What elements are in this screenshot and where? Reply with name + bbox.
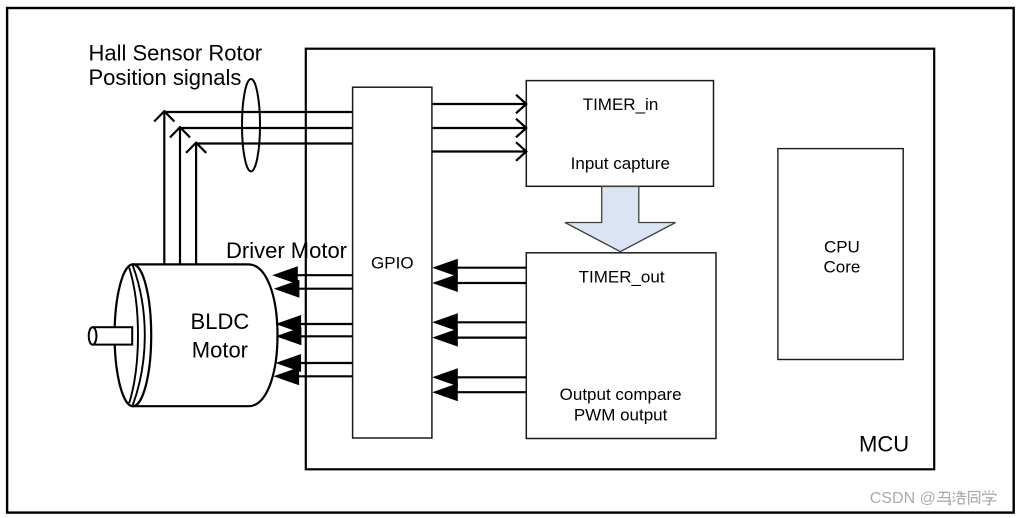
- wire drive 5 GPIO to motor: [276, 354, 353, 372]
- svg-text:Motor: Motor: [192, 338, 248, 363]
- wire hall signal 2 motor to GPIO: [170, 127, 353, 264]
- block GPIO: [353, 87, 432, 438]
- wire hall 3 GPIO to TIMER_in: [432, 142, 526, 161]
- wire pwm 6 TIMER_out to GPIO: [432, 383, 526, 401]
- svg-text:Position signals: Position signals: [89, 65, 242, 90]
- wire pwm 3 TIMER_out to GPIO: [432, 313, 526, 331]
- wire drive 6 GPIO to motor: [274, 367, 353, 385]
- wire drive 1 GPIO to motor: [272, 266, 352, 284]
- motor rim arc 2: [133, 266, 145, 405]
- wire pwm 2 TIMER_out to GPIO: [432, 274, 526, 292]
- wire drive 2 GPIO to motor: [274, 280, 353, 298]
- wire drive 4 GPIO to motor: [276, 327, 353, 345]
- wire pwm 5 TIMER_out to GPIO: [432, 368, 526, 386]
- svg-text:Input capture: Input capture: [571, 154, 670, 173]
- wire hall 1 GPIO to TIMER_in: [432, 95, 526, 114]
- wire pwm 1 TIMER_out to GPIO: [432, 259, 526, 277]
- motor rim arc 1: [129, 268, 138, 404]
- block arrow TIMER_in to TIMER_out: [565, 187, 676, 252]
- svg-text:PWM output: PWM output: [574, 405, 668, 424]
- block MCU: [306, 49, 934, 470]
- svg-text:MCU: MCU: [859, 432, 909, 457]
- svg-text:TIMER_out: TIMER_out: [579, 268, 665, 287]
- wire hall 2 GPIO to TIMER_in: [432, 119, 526, 138]
- svg-text:Hall Sensor Rotor: Hall Sensor Rotor: [89, 41, 263, 66]
- svg-text:Output compare: Output compare: [560, 385, 682, 404]
- block TIMER_out U-timer-out: [526, 253, 716, 439]
- svg-text:Driver Motor: Driver Motor: [226, 238, 347, 263]
- motor shaft: [89, 327, 133, 344]
- label BLDC Motor: [191, 309, 250, 363]
- svg-text:Core: Core: [823, 257, 860, 276]
- svg-text:BLDC: BLDC: [191, 309, 250, 334]
- wire hall signal 1 motor to GPIO: [154, 111, 352, 264]
- svg-text:CPU: CPU: [824, 237, 860, 256]
- motor end cap: [115, 264, 152, 406]
- watermark: [870, 490, 996, 507]
- svg-text:TIMER_in: TIMER_in: [583, 95, 659, 114]
- wire hall signal 3 motor to GPIO: [186, 143, 353, 265]
- block TIMER_in U-timer-in: [526, 81, 713, 187]
- motor BLDC body: [133, 264, 278, 406]
- label CPU Core: [823, 237, 860, 276]
- block CPU Core: [778, 149, 903, 360]
- svg-text:GPIO: GPIO: [371, 253, 414, 272]
- wire pwm 4 TIMER_out to GPIO: [432, 329, 526, 347]
- wire drive 3 GPIO to motor: [276, 315, 353, 333]
- svg-text:CSDN @: CSDN @: [870, 490, 936, 507]
- cable bundle ellipse: [242, 79, 260, 171]
- label Hall Sensor Rotor Position signals: [89, 41, 263, 91]
